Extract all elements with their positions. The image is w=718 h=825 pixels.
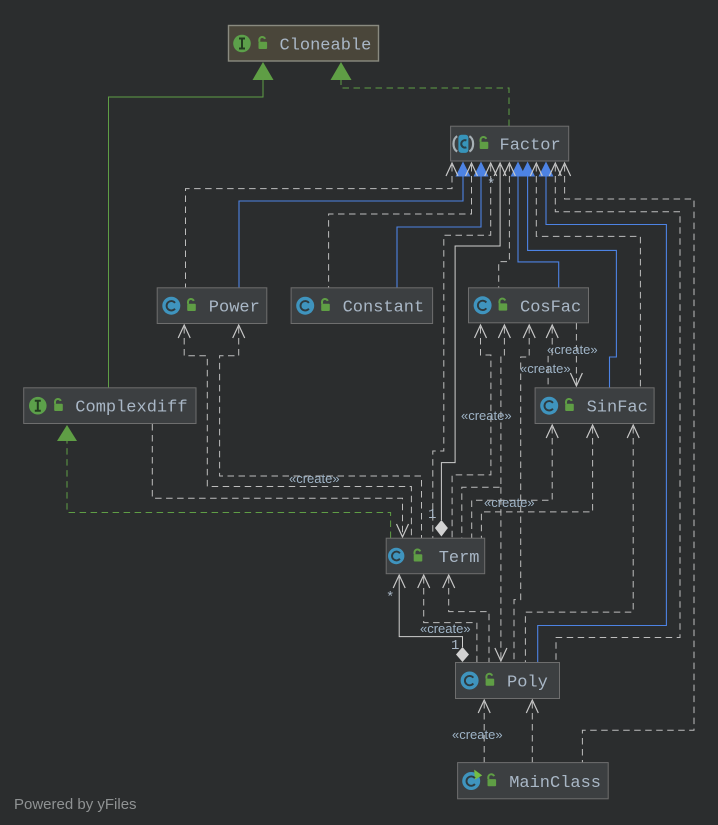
edge Power extends Factor (blue) xyxy=(239,162,471,289)
edge Term implements Complexdiff (green dashed) xyxy=(57,425,391,538)
svg-text:MainClass: MainClass xyxy=(509,774,601,793)
node Power (class) xyxy=(157,288,267,324)
edge CosFac depends Factor (dashed) xyxy=(499,163,516,288)
edge Complexdiff extends Cloneable (green solid) xyxy=(109,62,274,388)
edge Poly creates Term 1 (dashed) xyxy=(418,575,477,663)
node Factor (abstract class) xyxy=(451,126,569,161)
svg-text:SinFac: SinFac xyxy=(587,399,648,418)
edge MainClass depends Factor (dashed) xyxy=(559,163,694,763)
svg-text:Complexdiff: Complexdiff xyxy=(75,399,187,418)
edge CosFac creates SinFac (dashed, arrow into SinFac) xyxy=(570,323,582,386)
edge SinFac depends Factor (dashed) xyxy=(530,163,640,388)
edge Complexdiff depends Term (dashed, arrow into Term) xyxy=(152,424,408,537)
edge Term creates Power 2 (dashed) xyxy=(220,325,422,538)
edge CosFac depends Poly (dashed, arrow into Poly) xyxy=(495,487,507,661)
node Cloneable (interface, selected) xyxy=(229,26,379,62)
svg-text:«create»: «create» xyxy=(520,361,571,376)
svg-text:CosFac: CosFac xyxy=(520,298,581,317)
edge Term aggregates Factor (solid, diamond at Term) xyxy=(428,163,506,537)
svg-text:1: 1 xyxy=(428,507,436,523)
edge Poly aggregates Term (solid, diamond at Poly) xyxy=(386,575,469,662)
svg-text:Cloneable: Cloneable xyxy=(280,37,372,56)
svg-text:Poly: Poly xyxy=(507,674,548,693)
svg-text:«create»: «create» xyxy=(420,621,471,636)
edge CosFac extends Factor (blue) xyxy=(511,162,559,289)
edge Poly depends SinFac (dashed) xyxy=(525,425,639,663)
node Term (class) xyxy=(386,538,485,574)
edge Power depends Factor (dashed) xyxy=(186,163,459,288)
edge Term depends Factor (dashed) xyxy=(433,163,497,538)
edge Factor implements Cloneable (green dashed) xyxy=(331,62,510,126)
edge MainClass creates Poly 2 (dashed) xyxy=(526,700,538,763)
svg-text:«create»: «create» xyxy=(461,408,512,423)
svg-text:*: * xyxy=(386,590,394,606)
edge SinFac extends Factor (blue) xyxy=(520,162,616,389)
svg-text:«create»: «create» xyxy=(484,495,535,510)
node Poly (class) xyxy=(456,663,560,699)
edge Poly to Factor (blue) xyxy=(538,162,667,663)
node SinFac (class) xyxy=(535,388,654,424)
edge Poly creates Term 2 (dashed) xyxy=(443,575,489,663)
edge Term creates SinFac (dashed) xyxy=(481,425,598,538)
svg-text:Term: Term xyxy=(439,549,480,568)
edge Constant extends Factor (blue) xyxy=(397,162,489,289)
svg-text:*: * xyxy=(487,177,495,193)
edge MainClass creates Poly 1 (dashed) xyxy=(478,700,490,763)
svg-text:«create»: «create» xyxy=(452,727,503,742)
edge Poly creates SinFac via channel (dashed) xyxy=(514,425,558,663)
node MainClass (runnable class) xyxy=(458,763,609,799)
node Complexdiff (interface) xyxy=(24,388,196,424)
node Constant (class) xyxy=(291,288,433,324)
svg-text:Constant: Constant xyxy=(343,299,425,318)
svg-text:Factor: Factor xyxy=(500,137,561,156)
edge Term creates CosFac A (dashed) xyxy=(452,325,491,538)
svg-text:«create»: «create» xyxy=(547,342,598,357)
edge Term creates Power 1 (dashed) xyxy=(178,325,411,538)
svg-text:«create»: «create» xyxy=(289,471,340,486)
edge SinFac creates CosFac (dashed) xyxy=(546,325,558,388)
powered by yFiles footer xyxy=(14,796,137,813)
edge Term creates CosFac C (dashed) xyxy=(472,325,536,538)
svg-text:Power: Power xyxy=(209,299,260,318)
svg-text:1: 1 xyxy=(451,638,459,654)
edge Constant depends Factor (dashed) xyxy=(329,163,478,288)
edge Term creates CosFac B (dashed) xyxy=(462,325,511,538)
edge Poly depends Factor (dashed) xyxy=(549,163,680,663)
node CosFac (class) xyxy=(469,288,589,323)
